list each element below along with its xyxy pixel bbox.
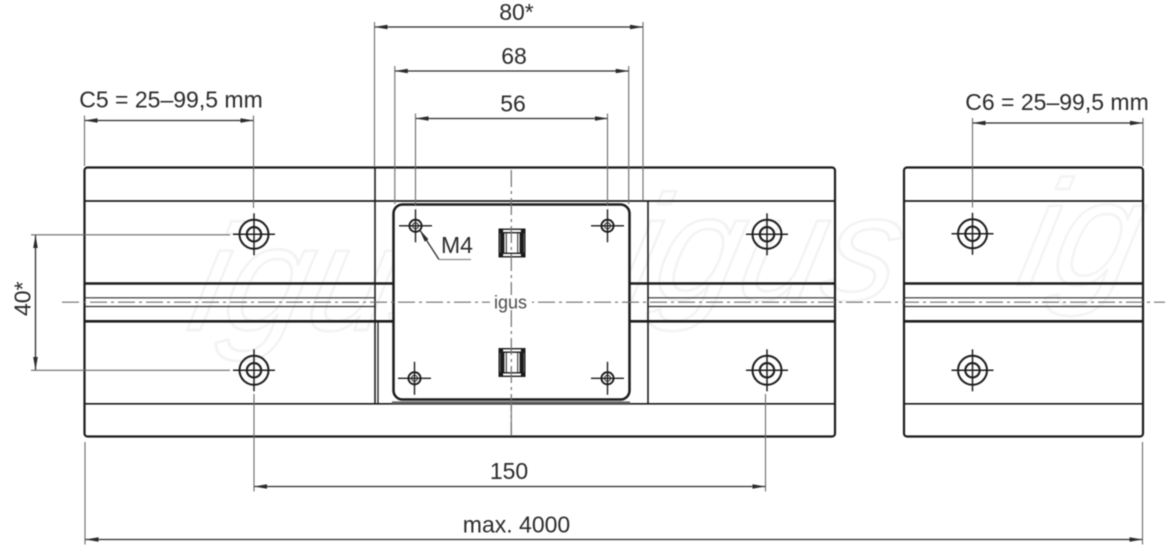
dimension 150	[254, 486, 766, 488]
guide band upper thick line	[85, 282, 836, 285]
svg-text:igus: igus	[494, 293, 527, 313]
label M4 with leader	[420, 230, 474, 260]
carriage plate	[394, 205, 630, 400]
carriage flank left vertical	[374, 167, 376, 404]
igus logo text	[490, 293, 532, 313]
right segment top face line	[904, 200, 1143, 202]
dimension 68	[395, 70, 629, 72]
right segment band thick lines	[904, 284, 1143, 322]
carriage hole top-right	[591, 209, 624, 242]
carriage flank right vertical	[647, 201, 649, 404]
svg-text:40*: 40*	[10, 281, 36, 316]
right segment hole top	[952, 213, 994, 255]
svg-text:C5 = 25–99,5 mm: C5 = 25–99,5 mm	[79, 87, 262, 113]
rail hole bottom-right	[746, 349, 788, 391]
svg-text:80*: 80*	[499, 0, 534, 25]
carriage hole bottom-left	[398, 362, 431, 395]
vertical centerline of carriage	[510, 170, 512, 436]
dimension C6	[973, 122, 1144, 124]
rail hole top-left	[233, 213, 275, 255]
rail hole top-right	[746, 213, 788, 255]
dimension max. 4000	[86, 539, 1143, 541]
main rail outline	[85, 168, 836, 437]
right rail segment outline	[904, 168, 1143, 437]
dimension 80*	[375, 26, 644, 28]
svg-text:M4: M4	[441, 232, 473, 258]
svg-text:max. 4000: max. 4000	[463, 512, 570, 538]
dimension 56	[416, 118, 609, 120]
watermark	[178, 151, 1160, 363]
svg-text:C6 = 25–99,5 mm: C6 = 25–99,5 mm	[965, 89, 1148, 115]
guide band lower thick line	[85, 320, 836, 323]
carriage hole top-left	[399, 209, 432, 242]
right segment hole bottom	[952, 349, 994, 391]
horizontal centerline	[62, 301, 1165, 303]
carriage hole bottom-right	[591, 362, 624, 395]
carriage centerline lower extension	[510, 400, 512, 435]
rail hole bottom-left	[233, 349, 275, 391]
dimension 40*	[35, 235, 37, 370]
thread insert slot bottom	[499, 348, 526, 377]
right segment band thin lines	[904, 298, 1143, 307]
carriage bottom shadow line	[392, 401, 630, 403]
guide band lower thin line	[85, 306, 836, 308]
carriage flank left lower second line	[377, 321, 379, 403]
main rail bottom face line	[85, 403, 836, 405]
guide band upper thin line	[85, 297, 836, 299]
thread insert slot top	[499, 229, 526, 258]
svg-text:56: 56	[500, 91, 526, 117]
svg-text:68: 68	[501, 43, 527, 69]
svg-text:150: 150	[490, 458, 528, 484]
dimension C5	[85, 120, 254, 122]
main rail top face line	[85, 200, 836, 202]
right segment bottom face line	[904, 403, 1143, 405]
